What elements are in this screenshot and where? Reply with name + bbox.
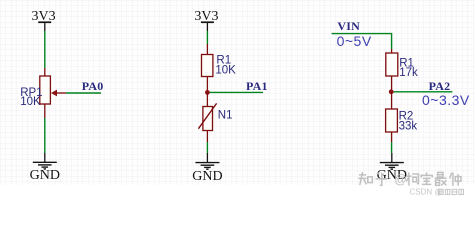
resistor R1 (middle) [202,55,213,77]
potentiometer RP1 [40,76,66,104]
pin 2 of N1 [206,131,208,143]
svg-text:17k: 17k [399,67,418,79]
svg-text:0~5V: 0~5V [337,33,372,49]
svg-text:N1: N1 [218,110,233,122]
pin 1 of R2 [391,92,393,109]
watermark csdn row [410,188,464,197]
wire [44,31,46,68]
svg-text:GND: GND [30,168,60,183]
pin 1 of R1 (right) [391,49,393,53]
ground GND (left) [30,153,60,183]
pin 1 of RP1 [44,68,46,76]
ground GND (middle) [192,153,222,184]
svg-text:@: @ [394,173,407,187]
svg-text:33k: 33k [399,121,418,133]
wire [391,142,393,153]
power port 3V3 (middle) [194,9,218,31]
junction [389,89,394,94]
pin 2 of RP1 [44,104,46,118]
wire wiper to PA0 [66,92,101,94]
wire to PA1 [207,91,263,93]
svg-text:0~3.3V: 0~3.3V [422,92,470,108]
ground GND (right) [377,153,407,183]
power port 3V3 (left) [32,9,56,31]
svg-text:CSDN @: CSDN @ [410,188,443,197]
svg-text:PA2: PA2 [429,79,451,93]
svg-text:10K: 10K [215,64,236,76]
wire to PA2 [391,91,452,93]
pin 1 of R1 [206,44,208,55]
svg-text:PA0: PA0 [82,79,104,93]
wire VIN [332,34,392,49]
svg-text:10K: 10K [20,96,41,108]
wire [206,31,208,44]
pin 2 of R1 (right) [391,76,393,92]
pin 1 of N1 [206,92,208,106]
resistor R1 (right) [386,53,398,76]
wire [44,118,46,153]
thermistor N1 [198,103,216,130]
pin 2 of R2 [391,132,393,142]
resistor R2 [386,109,398,132]
svg-text:PA1: PA1 [246,79,268,93]
wire [206,142,208,153]
svg-text:GND: GND [192,169,222,184]
watermark zhihu row [358,172,461,187]
junction [205,90,210,95]
pin 2 of R1 [206,77,208,93]
svg-text:VIN: VIN [337,19,360,33]
